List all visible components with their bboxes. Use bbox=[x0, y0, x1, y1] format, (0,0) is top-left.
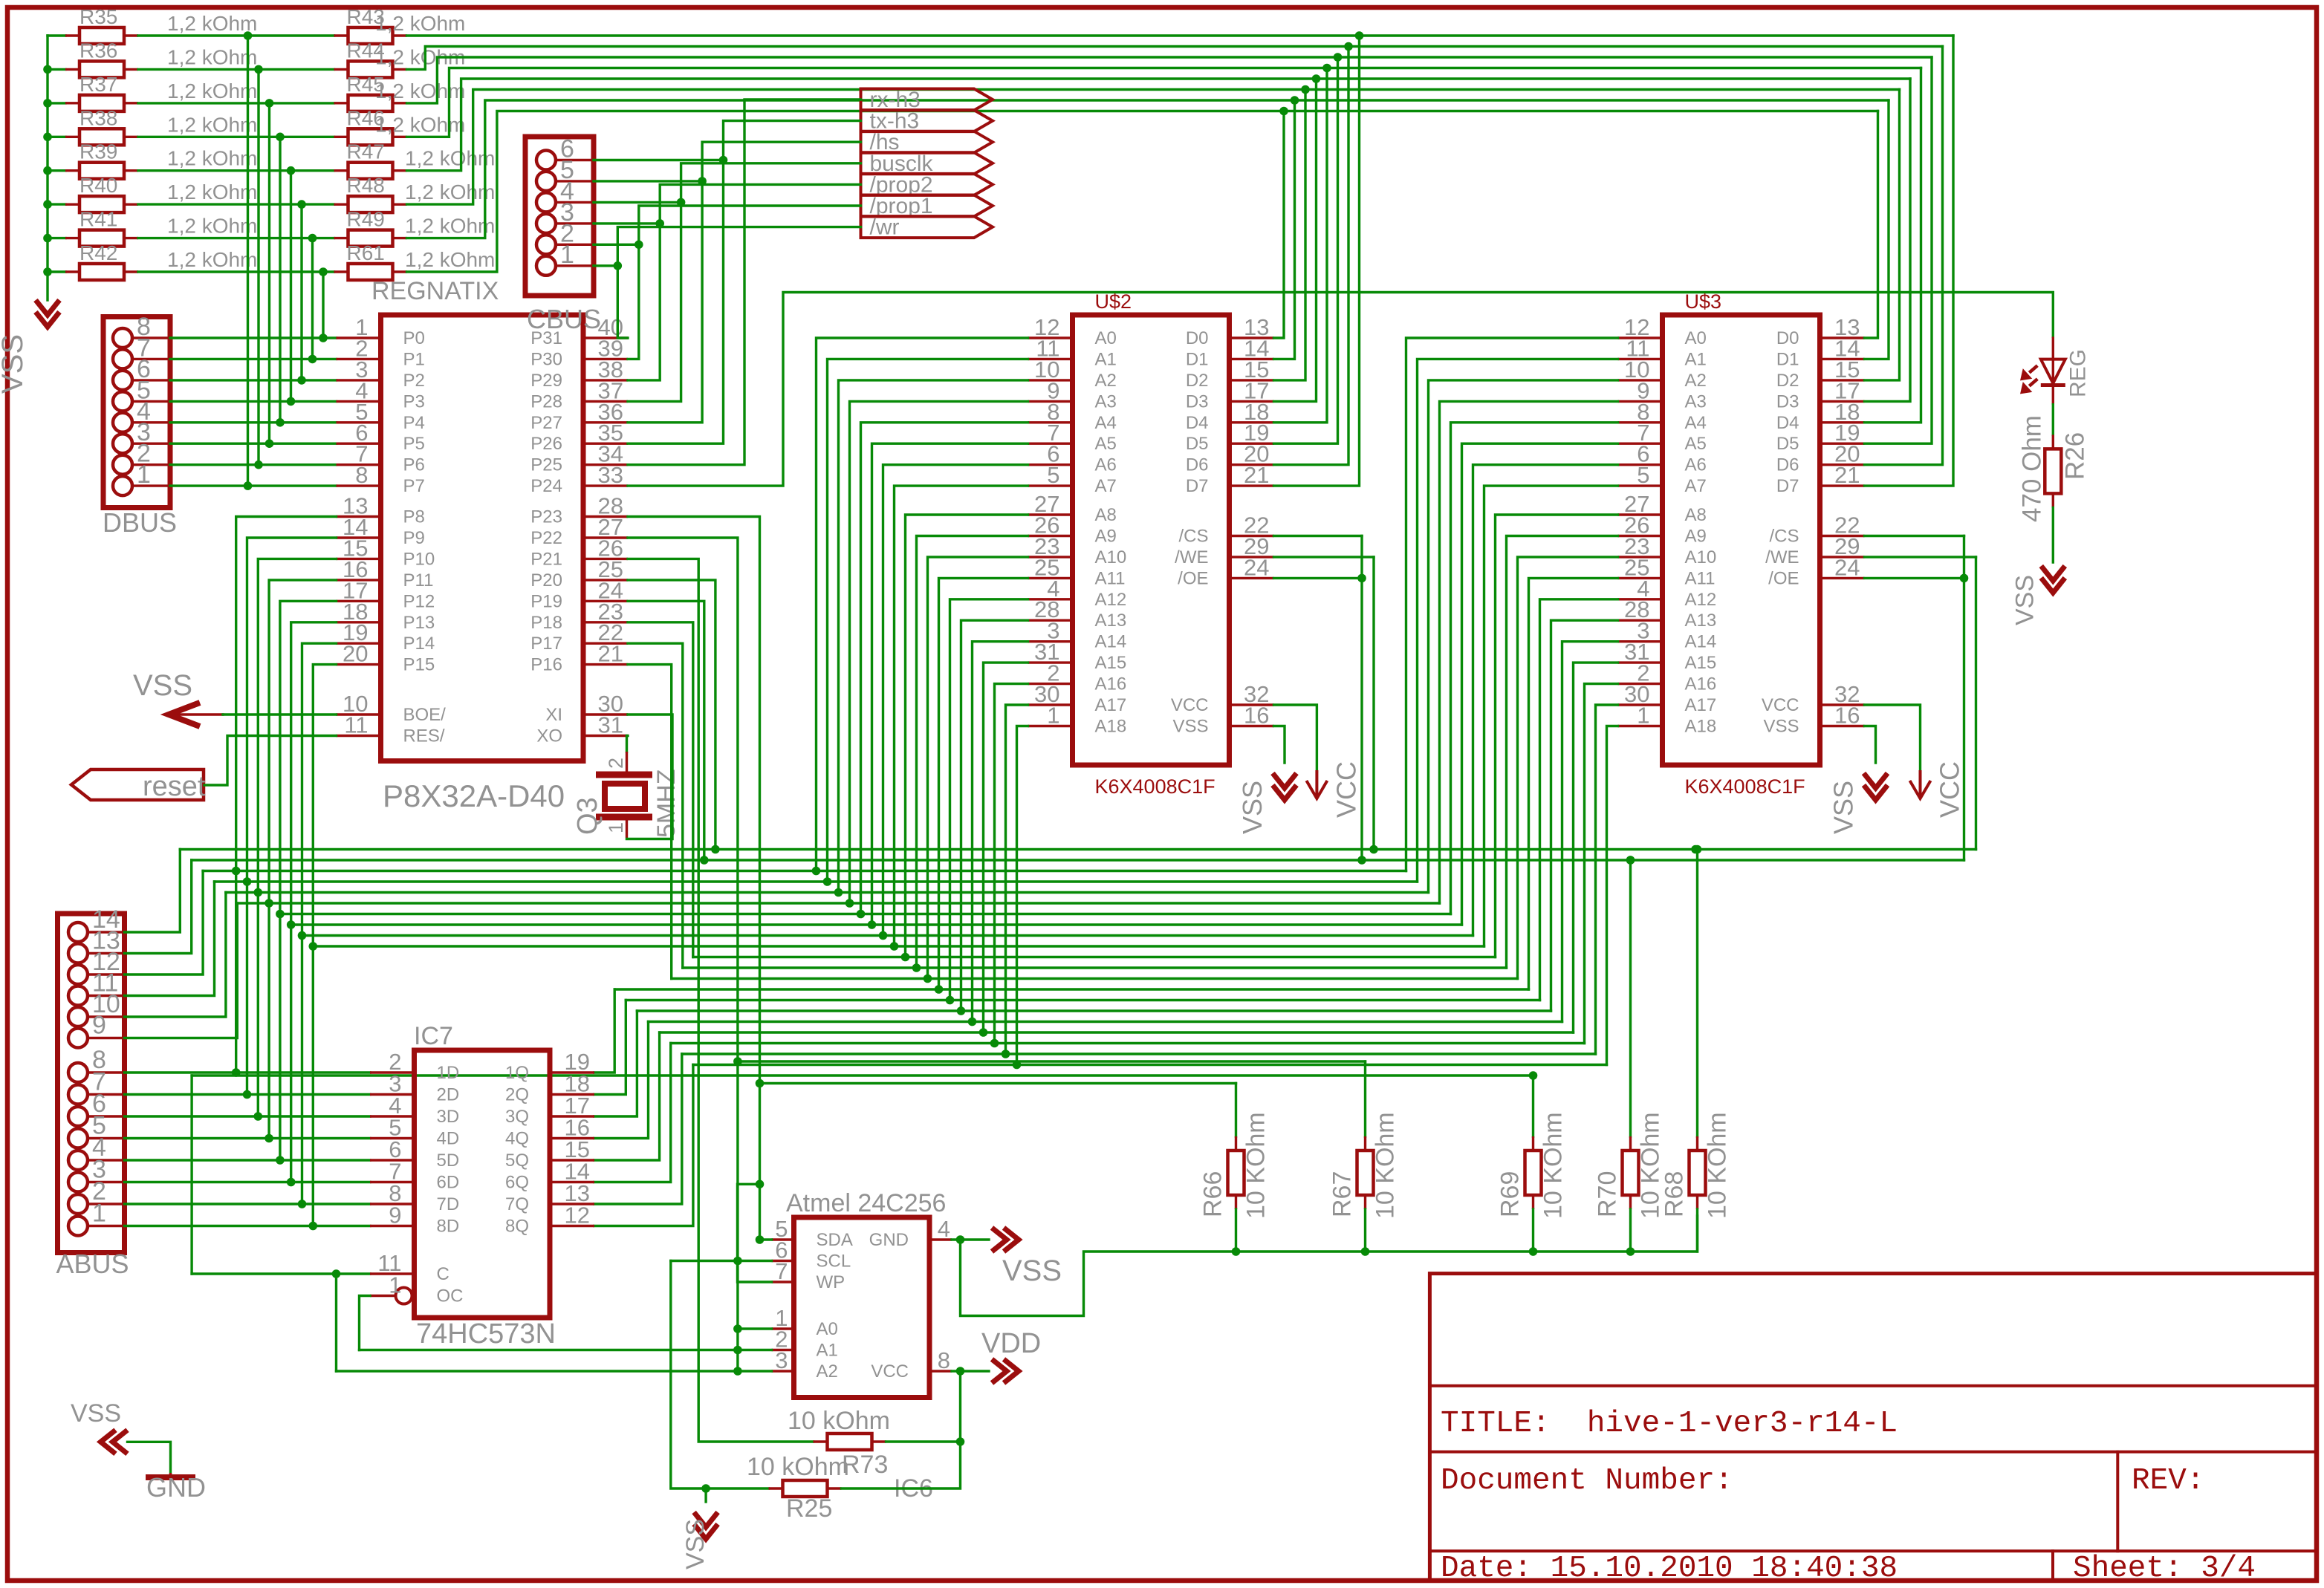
svg-text:1,2 kOhm: 1,2 kOhm bbox=[405, 248, 495, 271]
vertical bus resistor rows to P0-P7 rows bbox=[247, 36, 249, 486]
svg-text:ABUS: ABUS bbox=[56, 1249, 129, 1279]
svg-text:P7: P7 bbox=[403, 476, 425, 496]
wire C row horizontal bbox=[192, 1272, 370, 1275]
title block bbox=[1429, 1274, 2317, 1581]
wire /prop2 bbox=[628, 184, 861, 380]
pin 28 P23 bbox=[583, 515, 628, 518]
wire A0 IC6 bbox=[738, 1327, 772, 1330]
wires D bus U$2 bbox=[1274, 111, 1285, 339]
resistor R36 bbox=[48, 68, 65, 71]
wire R25 left with SCL branch bbox=[671, 1261, 769, 1489]
pin 21 D7 U$3 bbox=[1820, 484, 1865, 487]
wire XO to crystal pin2 bbox=[627, 736, 629, 752]
pin 15 D2 U$2 bbox=[1230, 379, 1274, 381]
pin 32 VCC U$3 bbox=[1820, 703, 1865, 706]
pin 21 P16 bbox=[583, 663, 628, 666]
resistor R41 bbox=[48, 237, 65, 239]
pin 17 D3 U$2 bbox=[1230, 400, 1274, 403]
wires DBUS to P8X32 P0-P7 bbox=[170, 336, 337, 339]
wire IC7 1Q riser bbox=[594, 989, 614, 1073]
wire P18 to L10 bbox=[628, 622, 693, 957]
svg-text:10 kOhm: 10 kOhm bbox=[747, 1453, 849, 1481]
pin 23 A10 U$3 bbox=[1618, 556, 1663, 558]
resistor R46 bbox=[334, 136, 348, 138]
wires ABUS 8-1 to IC7 D rows bbox=[125, 1071, 371, 1073]
svg-text:SDA: SDA bbox=[817, 1230, 853, 1250]
pin 9 A3 U$3 bbox=[1618, 400, 1663, 403]
svg-text:A18: A18 bbox=[1095, 717, 1127, 737]
svg-text:GND: GND bbox=[869, 1230, 909, 1250]
wire R73 to VCC vertical bbox=[886, 1440, 961, 1442]
pin 3 P2 bbox=[337, 379, 381, 381]
wire WP zigzag to SDA vertical bbox=[738, 1184, 772, 1282]
connector CBUS bbox=[525, 137, 594, 296]
svg-text:Q3: Q3 bbox=[572, 797, 603, 835]
svg-text:8Q: 8Q bbox=[505, 1217, 529, 1237]
pin 25 A11 U$3 bbox=[1618, 577, 1663, 579]
pin 16 VSS U$2 bbox=[1230, 725, 1274, 727]
svg-text:VSS: VSS bbox=[681, 1519, 710, 1569]
address bus lines L13-L20 from IC7 outputs bbox=[614, 988, 1528, 990]
wire U$2 /CS vertical bbox=[1360, 536, 1363, 861]
pin 34 P25 bbox=[583, 463, 628, 466]
svg-text:P12: P12 bbox=[403, 591, 435, 611]
svg-text:VCC: VCC bbox=[1935, 761, 1965, 818]
svg-text:D3: D3 bbox=[1186, 391, 1209, 411]
bus line CS net L1 bbox=[192, 859, 1964, 861]
svg-text:A0: A0 bbox=[817, 1319, 838, 1339]
svg-text:R70: R70 bbox=[1594, 1171, 1622, 1217]
wire junction to R44 bbox=[259, 68, 334, 71]
svg-text:P5: P5 bbox=[403, 434, 425, 454]
svg-text:C: C bbox=[437, 1264, 449, 1284]
svg-text:A13: A13 bbox=[1095, 611, 1127, 631]
pin 17 D3 U$3 bbox=[1820, 400, 1865, 403]
wire junction to R45 bbox=[270, 102, 334, 104]
address bus lines L2-L9 bbox=[203, 870, 1406, 872]
svg-text:OC: OC bbox=[437, 1286, 464, 1306]
svg-text:DBUS: DBUS bbox=[103, 507, 177, 538]
svg-text:Atmel 24C256: Atmel 24C256 bbox=[786, 1189, 946, 1217]
pin 2 A16 U$2 bbox=[1028, 683, 1073, 685]
pin 25 A11 U$2 bbox=[1028, 577, 1073, 579]
wire IC7 6Q riser bbox=[594, 1044, 671, 1182]
wire /WE U$2 bbox=[1274, 556, 1374, 558]
wire junction to R49 bbox=[313, 237, 334, 239]
wire R67 pullup line bbox=[738, 1060, 1366, 1062]
wire R37 to junction bbox=[138, 102, 270, 104]
svg-text:1,2 kOhm: 1,2 kOhm bbox=[167, 79, 257, 102]
resistor R67 10 KOhm bbox=[1364, 1061, 1366, 1136]
resistor R47 bbox=[334, 169, 348, 172]
svg-text:P1: P1 bbox=[403, 349, 425, 369]
wire U$3 /CS vertical bbox=[1963, 536, 1965, 861]
pin 36 P27 bbox=[583, 421, 628, 423]
svg-text:1: 1 bbox=[1637, 703, 1649, 729]
svg-text:A12: A12 bbox=[1095, 590, 1127, 610]
pin 23 A10 U$2 bbox=[1028, 556, 1073, 558]
pin 19 P14 bbox=[337, 642, 381, 645]
svg-text:1: 1 bbox=[605, 822, 627, 833]
svg-text:21: 21 bbox=[1834, 462, 1860, 488]
svg-text:1: 1 bbox=[560, 241, 574, 269]
svg-text:24: 24 bbox=[1834, 554, 1860, 580]
pin 12 A0 U$3 bbox=[1618, 336, 1663, 339]
svg-text:5Q: 5Q bbox=[505, 1151, 529, 1171]
svg-text:A3: A3 bbox=[1095, 391, 1117, 411]
pin 7 P6 bbox=[337, 463, 381, 466]
svg-text:D5: D5 bbox=[1186, 434, 1209, 454]
resistor R25 bbox=[769, 1487, 783, 1489]
pin 3 A2 IC6 bbox=[772, 1370, 794, 1372]
pin 30 XI bbox=[583, 713, 628, 715]
svg-text:A12: A12 bbox=[1685, 590, 1717, 610]
top bus line 3 bbox=[407, 57, 1932, 103]
latch clock line L21 bbox=[192, 1074, 1533, 1076]
svg-text:4D: 4D bbox=[437, 1129, 460, 1149]
svg-text:K6X4008C1F: K6X4008C1F bbox=[1685, 775, 1805, 798]
svg-text:10 KOhm: 10 KOhm bbox=[1242, 1112, 1270, 1219]
svg-text:RES/: RES/ bbox=[403, 726, 445, 746]
svg-text:P18: P18 bbox=[530, 613, 562, 633]
svg-text:3Q: 3Q bbox=[505, 1107, 529, 1127]
wire C branch down to IC6 A2 bbox=[335, 1274, 337, 1371]
wire LED to R26 bbox=[2052, 386, 2054, 405]
flag /wr bbox=[861, 216, 993, 238]
pin 40 P31 bbox=[583, 336, 628, 339]
flag tx-h3 bbox=[861, 110, 993, 131]
wire VSS rail bbox=[961, 1216, 1698, 1316]
wire /hs bbox=[628, 142, 861, 423]
pin 11 A1 U$3 bbox=[1618, 358, 1663, 360]
pin 22 P17 bbox=[583, 642, 628, 645]
resistor R68 10 KOhm bbox=[1696, 850, 1698, 1137]
IC IC6 Atmel 24C256 bbox=[794, 1217, 930, 1398]
wire SCL vertical down bbox=[736, 1261, 739, 1372]
svg-text:R39: R39 bbox=[79, 140, 117, 163]
pin 6 P5 bbox=[337, 443, 381, 445]
wire P22 SCL net bbox=[628, 538, 738, 1261]
wire P16 to L12 bbox=[628, 665, 672, 979]
wire VDD net IC6 bbox=[952, 1370, 989, 1372]
svg-text:A13: A13 bbox=[1685, 611, 1717, 631]
wire R66 pullup line bbox=[760, 1082, 1236, 1084]
wire GND IC6 to VSS arrow bbox=[952, 1238, 989, 1240]
connector ABUS bbox=[58, 914, 125, 1253]
svg-text:P29: P29 bbox=[530, 371, 562, 391]
pin 7 6D bbox=[370, 1181, 415, 1183]
svg-text:D5: D5 bbox=[1776, 434, 1799, 454]
wire R38 to junction bbox=[138, 136, 280, 138]
svg-text:VSS: VSS bbox=[2010, 575, 2039, 625]
svg-text:A15: A15 bbox=[1095, 653, 1127, 673]
svg-text:5: 5 bbox=[1637, 462, 1649, 488]
pin 16 P11 bbox=[337, 579, 381, 581]
wire SCL to IC6 bbox=[671, 1260, 772, 1262]
svg-text:8: 8 bbox=[938, 1347, 950, 1373]
svg-text:WP: WP bbox=[817, 1272, 845, 1292]
svg-text:BOE/: BOE/ bbox=[403, 705, 447, 725]
pin 17 3Q bbox=[550, 1115, 594, 1117]
pin 13 P8 bbox=[337, 515, 381, 518]
svg-text:/WE: /WE bbox=[1175, 547, 1208, 567]
svg-text:P21: P21 bbox=[530, 549, 562, 569]
wire IC7 C net vertical bbox=[190, 1076, 192, 1274]
pin 24 /OE U$2 bbox=[1230, 577, 1274, 579]
top bus line 5 bbox=[407, 79, 1911, 171]
pin 5 SDA IC6 bbox=[772, 1238, 794, 1240]
pin 19 D5 U$3 bbox=[1820, 443, 1865, 445]
flag reset bbox=[71, 769, 204, 800]
svg-text:P2: P2 bbox=[403, 371, 425, 391]
pin 2 1D bbox=[370, 1071, 415, 1073]
svg-text:A11: A11 bbox=[1685, 568, 1716, 588]
svg-text:P8: P8 bbox=[403, 507, 425, 527]
pin 14 P9 bbox=[337, 536, 381, 538]
svg-text:A7: A7 bbox=[1685, 476, 1707, 496]
svg-text:/CS: /CS bbox=[1769, 527, 1799, 547]
pin 27 P22 bbox=[583, 536, 628, 538]
pin 7 A5 U$2 bbox=[1028, 443, 1073, 445]
svg-text:P26: P26 bbox=[530, 434, 562, 454]
pin 13 D0 U$2 bbox=[1230, 336, 1274, 339]
svg-text:8: 8 bbox=[355, 462, 368, 488]
pin 1 A0 IC6 bbox=[772, 1327, 794, 1330]
pin 8 VCC IC6 bbox=[929, 1370, 952, 1372]
svg-text:A1: A1 bbox=[817, 1341, 838, 1361]
svg-text:10 kOhm: 10 kOhm bbox=[788, 1407, 890, 1435]
svg-text:A8: A8 bbox=[1685, 505, 1707, 525]
pin 8 A4 U$2 bbox=[1028, 421, 1073, 423]
svg-text:D1: D1 bbox=[1186, 349, 1209, 369]
wire busclk bbox=[628, 163, 861, 402]
svg-text:P3: P3 bbox=[403, 391, 425, 411]
wires D bus U$3 bbox=[1865, 111, 1878, 339]
svg-text:/WE: /WE bbox=[1765, 547, 1799, 567]
svg-text:REV:: REV: bbox=[2132, 1464, 2204, 1498]
wire /CS U$3 bbox=[1865, 535, 1964, 537]
flag /prop1 bbox=[861, 195, 993, 217]
wire P23 SDA net bbox=[628, 517, 760, 1240]
svg-text:P23: P23 bbox=[530, 507, 562, 527]
wire VSS U$3 bbox=[1865, 726, 1876, 764]
svg-text:A4: A4 bbox=[1685, 413, 1707, 433]
pin 18 D4 U$3 bbox=[1820, 421, 1865, 423]
pin 31 XO bbox=[583, 735, 628, 737]
top bus line 4 bbox=[407, 68, 1921, 137]
svg-text:10 KOhm: 10 KOhm bbox=[1372, 1112, 1400, 1219]
top bus line 2 bbox=[407, 47, 1943, 70]
svg-text:P4: P4 bbox=[403, 413, 425, 433]
wires ABUS 14-9 risers to bus lines bbox=[125, 850, 181, 933]
pin 15 D2 U$3 bbox=[1820, 379, 1865, 381]
pin 19 1Q bbox=[550, 1071, 594, 1073]
svg-text:1,2 kOhm: 1,2 kOhm bbox=[167, 113, 257, 136]
resistor R43 bbox=[334, 34, 348, 36]
pin 8 7D bbox=[370, 1203, 415, 1205]
svg-text:P6: P6 bbox=[403, 455, 425, 475]
pin 6 SCL IC6 bbox=[772, 1260, 794, 1262]
pin 4 3D bbox=[370, 1115, 415, 1117]
svg-text:P19: P19 bbox=[530, 591, 562, 611]
wire VCC U$3 bbox=[1865, 705, 1921, 772]
svg-text:P16: P16 bbox=[530, 655, 562, 675]
svg-text:R48: R48 bbox=[347, 174, 385, 197]
svg-text:4Q: 4Q bbox=[505, 1129, 529, 1149]
resistor R38 bbox=[48, 136, 65, 138]
wire IC7 3Q riser bbox=[594, 1011, 637, 1116]
svg-text:D7: D7 bbox=[1186, 476, 1209, 496]
svg-text:/OE: /OE bbox=[1178, 568, 1208, 588]
pin 13 D0 U$3 bbox=[1820, 336, 1865, 339]
resistor R70 10 KOhm bbox=[1629, 860, 1632, 1136]
svg-text:D2: D2 bbox=[1776, 371, 1799, 391]
svg-text:R25: R25 bbox=[786, 1494, 832, 1523]
svg-text:9: 9 bbox=[92, 1012, 106, 1040]
pin 24 /OE U$3 bbox=[1820, 577, 1865, 579]
pin 4 A12 U$3 bbox=[1618, 598, 1663, 600]
svg-text:7Q: 7Q bbox=[505, 1194, 529, 1214]
svg-text:20: 20 bbox=[343, 641, 368, 667]
pin 8 A4 U$3 bbox=[1618, 421, 1663, 423]
svg-text:1,2 kOhm: 1,2 kOhm bbox=[167, 12, 257, 35]
svg-text:P27: P27 bbox=[530, 413, 562, 433]
pin 38 P29 bbox=[583, 379, 628, 381]
flag VDD arrow bbox=[1004, 1359, 1019, 1383]
svg-text:VSS: VSS bbox=[133, 669, 192, 702]
svg-text:VSS: VSS bbox=[1172, 717, 1208, 737]
resistor R66 10 KOhm bbox=[1235, 1084, 1237, 1137]
svg-text:1,2 kOhm: 1,2 kOhm bbox=[405, 147, 495, 170]
svg-text:1Q: 1Q bbox=[505, 1063, 529, 1083]
pin 20 D6 U$2 bbox=[1230, 463, 1274, 466]
svg-text:R36: R36 bbox=[79, 39, 117, 62]
svg-text:2: 2 bbox=[605, 758, 627, 769]
wire junction to R46 bbox=[280, 136, 334, 138]
svg-text:1D: 1D bbox=[437, 1063, 460, 1083]
pin 24 P19 bbox=[583, 600, 628, 602]
pin 7 WP IC6 bbox=[772, 1281, 794, 1283]
wires P8-P15 to IC7 inputs bbox=[236, 517, 337, 1073]
svg-text:R38: R38 bbox=[79, 106, 117, 129]
svg-text:D6: D6 bbox=[1186, 455, 1209, 475]
svg-text:D3: D3 bbox=[1776, 391, 1799, 411]
VSS rail left bbox=[46, 36, 48, 300]
svg-text:D0: D0 bbox=[1776, 328, 1799, 348]
pin 1 OC bbox=[396, 1288, 412, 1304]
pin 19 D5 U$2 bbox=[1230, 443, 1274, 445]
svg-text:4: 4 bbox=[938, 1216, 950, 1242]
VSS arrow at BOE/ bbox=[169, 713, 223, 715]
svg-text:21: 21 bbox=[1244, 462, 1269, 488]
svg-text:A2: A2 bbox=[1095, 371, 1117, 391]
top bus line 1 from R43 bbox=[407, 34, 1954, 36]
wire A2 IC6 bbox=[337, 1370, 772, 1372]
svg-text:REGNATIX: REGNATIX bbox=[371, 277, 499, 305]
wire rx-h3 bbox=[628, 100, 861, 465]
svg-text:P24: P24 bbox=[530, 476, 562, 496]
pin 37 P28 bbox=[583, 400, 628, 403]
svg-text:A14: A14 bbox=[1095, 632, 1127, 652]
pin 21 D7 U$2 bbox=[1230, 484, 1274, 487]
svg-text:1,2 kOhm: 1,2 kOhm bbox=[167, 45, 257, 68]
pin 11 RES/ bbox=[337, 735, 381, 737]
wire VCC U$2 bbox=[1274, 705, 1317, 772]
svg-text:5MHZ: 5MHZ bbox=[652, 769, 681, 838]
svg-text:A8: A8 bbox=[1095, 505, 1117, 525]
pin 25 P20 bbox=[583, 579, 628, 581]
svg-text:5: 5 bbox=[1047, 462, 1059, 488]
pin 26 A9 U$2 bbox=[1028, 535, 1073, 537]
svg-text:R61: R61 bbox=[347, 241, 385, 264]
svg-text:A1: A1 bbox=[1095, 349, 1117, 369]
wire IC7 4Q riser bbox=[594, 1022, 649, 1139]
svg-text:1,2 kOhm: 1,2 kOhm bbox=[167, 180, 257, 204]
pin 28 A13 U$2 bbox=[1028, 619, 1073, 622]
wire P19 to L1 bbox=[628, 601, 704, 860]
svg-text:P8X32A-D40: P8X32A-D40 bbox=[383, 778, 565, 813]
svg-text:A16: A16 bbox=[1685, 674, 1717, 694]
flag /hs bbox=[861, 131, 993, 153]
wire tx-h3 bbox=[628, 121, 861, 444]
wire IC7 5Q riser bbox=[594, 1032, 660, 1160]
svg-text:1: 1 bbox=[137, 461, 151, 489]
svg-text:R26: R26 bbox=[2060, 432, 2089, 480]
svg-text:D1: D1 bbox=[1776, 349, 1799, 369]
pin 2 A1 IC6 bbox=[772, 1349, 794, 1351]
svg-text:D0: D0 bbox=[1186, 328, 1209, 348]
pin 32 VCC U$2 bbox=[1230, 703, 1274, 706]
svg-text:D4: D4 bbox=[1186, 413, 1209, 433]
svg-text:A15: A15 bbox=[1685, 653, 1717, 673]
svg-text:24: 24 bbox=[1244, 554, 1269, 580]
pin 22 /CS U$2 bbox=[1230, 535, 1274, 537]
LED REG bbox=[2052, 336, 2054, 383]
svg-text:D7: D7 bbox=[1776, 476, 1799, 496]
pin 4 GND IC6 bbox=[929, 1238, 952, 1240]
svg-text:/CS: /CS bbox=[1178, 527, 1208, 547]
svg-text:A10: A10 bbox=[1685, 547, 1717, 567]
pin 5 A7 U$2 bbox=[1028, 484, 1073, 487]
svg-text:1,2 kOhm: 1,2 kOhm bbox=[167, 147, 257, 170]
svg-text:Date: 15.10.2010 18:40:38: Date: 15.10.2010 18:40:38 bbox=[1441, 1552, 1898, 1586]
svg-text:D2: D2 bbox=[1186, 371, 1209, 391]
svg-text:1,2 kOhm: 1,2 kOhm bbox=[167, 248, 257, 271]
svg-text:A2: A2 bbox=[817, 1361, 838, 1382]
svg-text:P15: P15 bbox=[403, 655, 435, 675]
wire P20 to L0 bbox=[628, 580, 715, 850]
pin 15 P10 bbox=[337, 558, 381, 560]
svg-text:A4: A4 bbox=[1095, 413, 1117, 433]
resistor R35 bbox=[48, 34, 65, 36]
pin 28 A13 U$3 bbox=[1618, 619, 1663, 622]
svg-text:74HC573N: 74HC573N bbox=[416, 1318, 556, 1350]
LED emission arrows bbox=[2029, 365, 2037, 373]
wire to GND bbox=[128, 1442, 171, 1473]
pin 22 /CS U$3 bbox=[1820, 535, 1865, 537]
svg-text:P17: P17 bbox=[530, 634, 562, 654]
svg-text:470 Ohm: 470 Ohm bbox=[2017, 415, 2046, 522]
pin 3 A14 U$2 bbox=[1028, 640, 1073, 642]
pin 14 D1 U$3 bbox=[1820, 358, 1865, 360]
svg-text:A17: A17 bbox=[1685, 695, 1717, 715]
wire R41 to junction bbox=[138, 237, 313, 239]
pin 18 2Q bbox=[550, 1093, 594, 1096]
pin 27 A8 U$3 bbox=[1618, 513, 1663, 515]
wire U$2 /WE vertical bbox=[1372, 557, 1374, 850]
pin 1 P0 bbox=[337, 336, 381, 339]
svg-text:A5: A5 bbox=[1685, 434, 1707, 454]
